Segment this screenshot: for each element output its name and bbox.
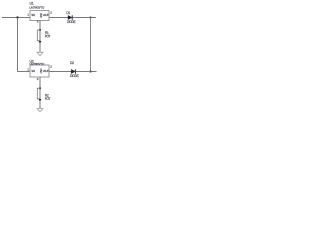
diode D1: [66, 11, 75, 24]
wire U2 GND down: [39, 77, 41, 88]
wire input horizontal to U2 VIN: [18, 71, 31, 73]
node R2 top junction: [39, 87, 41, 89]
svg-text:POT: POT: [45, 35, 51, 39]
node R1 top junction: [39, 29, 41, 31]
op-amp U2 regulator box: [27, 59, 52, 81]
wire U1 GND down: [39, 21, 41, 31]
svg-text:VOUT: VOUT: [43, 69, 49, 73]
wire input vertical down: [17, 18, 19, 72]
diode D2: [70, 61, 79, 78]
wire R1 to ground: [39, 43, 41, 52]
svg-text:D2: D2: [70, 61, 74, 65]
wire U2 VOUT to D2: [49, 71, 71, 73]
wire input horizontal to U1 VIN: [2, 17, 30, 19]
ground (U2 branch): [37, 109, 43, 112]
ground (U1 branch): [37, 52, 43, 55]
svg-text:LM7805/TO: LM7805/TO: [30, 62, 45, 66]
wire output vertical: [90, 18, 92, 72]
svg-text:VIN: VIN: [31, 69, 35, 73]
svg-text:VIN: VIN: [31, 13, 35, 17]
resistor R1 potentiometer: [37, 30, 50, 44]
svg-text:DIODE: DIODE: [70, 74, 79, 78]
svg-text:VOUT: VOUT: [43, 13, 49, 17]
wire R2 to ground: [39, 101, 41, 109]
wire output stub right: [91, 71, 97, 73]
resistor R2 potentiometer: [37, 88, 50, 101]
node output junction top: [89, 16, 91, 18]
wire U1 VOUT to D1: [49, 17, 68, 19]
svg-text:POT: POT: [45, 97, 51, 101]
node output junction bottom: [89, 70, 91, 72]
node input junction: [16, 16, 18, 18]
svg-text:LM7805/TO: LM7805/TO: [30, 6, 45, 10]
svg-text:DIODE: DIODE: [67, 20, 76, 24]
svg-text:D1: D1: [66, 11, 70, 15]
wire D2 to output junction: [76, 71, 91, 73]
op-amp U1 regulator box: [27, 2, 52, 24]
wire D1 to output junction: [73, 17, 97, 19]
